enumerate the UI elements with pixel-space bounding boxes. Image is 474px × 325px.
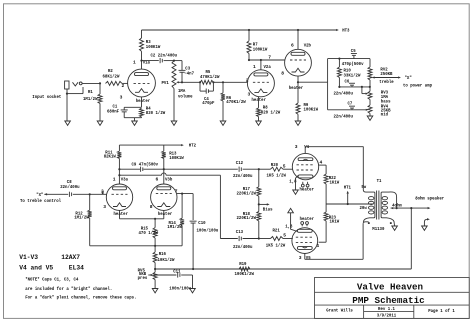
wire V5 plate up to OT — [363, 222, 369, 259]
svg-text:treble: treble — [379, 79, 394, 85]
resistor R10 slope — [337, 59, 341, 87]
label V1a pins — [120, 60, 151, 101]
wire V2a cathode — [258, 97, 260, 108]
svg-text:1M1/2W: 1M1/2W — [74, 214, 89, 220]
svg-text:T1: T1 — [377, 178, 382, 184]
wire X to C8 — [44, 193, 68, 195]
svg-text:heater: heater — [289, 85, 304, 91]
node bias — [258, 203, 260, 205]
capacitor C2 — [142, 58, 175, 63]
node V1a plate junction — [140, 60, 142, 62]
svg-text:68K1/2W: 68K1/2W — [103, 73, 120, 79]
node NFB left — [154, 268, 156, 270]
svg-text:HT1: HT1 — [344, 184, 352, 190]
wire V2b cathode — [297, 76, 299, 103]
svg-text:C10: C10 — [198, 220, 206, 226]
svg-text:Page 1 of 1: Page 1 of 1 — [428, 308, 455, 314]
label RV2 — [379, 66, 394, 85]
svg-text:6: 6 — [291, 43, 294, 49]
potentiometer PV1 volume — [172, 61, 176, 121]
svg-text:82K1W: 82K1W — [104, 154, 116, 160]
label HT1 — [344, 184, 352, 190]
capacitor C4 — [200, 82, 213, 93]
svg-text:100K1W: 100K1W — [253, 46, 268, 52]
wire jack sleeve — [66, 87, 83, 95]
label V3b heater — [158, 211, 173, 217]
transformer core — [377, 191, 379, 220]
wire V3b grid — [177, 193, 193, 195]
svg-text:100K1/2W: 100K1/2W — [235, 271, 255, 277]
svg-text:V3b: V3b — [165, 177, 173, 183]
capacitor C8 — [69, 192, 71, 197]
label C12 — [233, 160, 253, 179]
wire R6 to V2a grid — [223, 78, 249, 84]
label R15 — [139, 226, 159, 236]
label C3 — [184, 65, 194, 76]
node tail mid — [154, 245, 156, 247]
label secondary 0 terminal — [390, 222, 392, 224]
primary bottom lead — [363, 218, 369, 222]
author cell — [326, 307, 353, 313]
svg-text:"X": "X" — [405, 75, 413, 81]
svg-text:470p(500v: 470p(500v — [342, 61, 364, 67]
resistor R11 — [117, 145, 121, 169]
svg-text:V1-V3: V1-V3 — [19, 254, 38, 261]
resistor R6 — [221, 82, 225, 121]
svg-text:22n/400u: 22n/400u — [233, 173, 253, 179]
label V5 pins — [285, 223, 311, 261]
wire tone left rail — [327, 82, 329, 110]
wire V5 cathode — [291, 213, 298, 232]
label X out — [403, 75, 432, 88]
label tube types line 2 — [19, 264, 84, 271]
ground R9 — [295, 121, 301, 125]
ground secondary — [392, 226, 398, 230]
svg-text:volume: volume — [178, 93, 193, 99]
svg-text:220K1/2W: 220K1/2W — [237, 190, 257, 196]
label R20 — [267, 162, 287, 178]
resistor R3 — [140, 30, 144, 61]
wire grid V2b — [249, 54, 285, 60]
svg-text:100K1W: 100K1W — [169, 155, 184, 161]
resistor R5 — [200, 80, 214, 84]
svg-text:V2a: V2a — [264, 64, 272, 70]
resistor R21 grid stopper — [259, 237, 283, 241]
svg-text:1: 1 — [133, 60, 136, 66]
svg-text:C5: C5 — [351, 48, 356, 54]
label C8 — [60, 179, 80, 190]
ground V5 cathode up — [288, 208, 294, 212]
label R1 — [83, 89, 98, 102]
svg-text:8: 8 — [281, 70, 284, 76]
svg-text:4: 4 — [320, 159, 323, 165]
wire cathode ground join — [124, 118, 141, 121]
label 5W tap — [361, 184, 366, 190]
svg-text:33K1/2W: 33K1/2W — [344, 73, 361, 79]
svg-text:R1: R1 — [88, 89, 93, 95]
svg-text:HT2: HT2 — [189, 143, 197, 149]
arrow HT3 — [336, 29, 339, 31]
secondary top lead — [387, 192, 397, 208]
svg-text:C12: C12 — [236, 160, 244, 166]
wire plate down to OT — [363, 147, 369, 192]
title text — [357, 281, 423, 292]
label V3a heater — [114, 211, 129, 217]
triode V3b — [151, 184, 177, 210]
label V1a heater — [136, 98, 151, 104]
ground speaker return — [422, 226, 428, 230]
svg-text:are included for a "bright" ch: are included for a "bright" channel. — [25, 286, 112, 292]
wire V3a plate branch — [118, 169, 120, 184]
wire speaker line — [391, 207, 428, 209]
svg-text:1K5 1/2W: 1K5 1/2W — [267, 172, 287, 178]
label tube types line 1 — [19, 254, 80, 261]
svg-text:5: 5 — [283, 164, 286, 170]
triode V3a — [106, 184, 132, 210]
resistor R12 — [88, 194, 92, 246]
capacitor C11 presence — [153, 272, 192, 288]
label C9 — [132, 162, 159, 168]
wire V4 plate — [305, 147, 363, 154]
wire tone stack top — [328, 58, 370, 60]
svg-text:820 1/2W: 820 1/2W — [261, 110, 281, 116]
label PV1 — [162, 80, 193, 99]
svg-text:470K1/2W: 470K1/2W — [200, 74, 220, 80]
svg-text:3: 3 — [295, 144, 298, 150]
svg-text:5w: 5w — [361, 184, 366, 190]
wire V1a cathode — [141, 97, 143, 107]
svg-text:7: 7 — [268, 54, 271, 60]
svg-text:1M1/2W: 1M1/2W — [83, 96, 98, 102]
label R8 — [261, 105, 281, 116]
potentiometer RV3 bass — [368, 91, 372, 105]
label R18 — [237, 211, 257, 221]
svg-text:to power amp: to power amp — [403, 82, 432, 88]
resistor R16 — [153, 246, 157, 269]
wire V3b plate branch — [163, 169, 165, 184]
wire V4 screen — [319, 164, 327, 166]
triode V2b cathode follower — [285, 49, 312, 76]
wire V4 cathode — [296, 176, 299, 190]
transformer T1 secondary — [381, 192, 387, 218]
node R1 junction — [99, 82, 101, 84]
svg-text:250KB: 250KB — [380, 71, 392, 77]
wire C7 row — [328, 109, 367, 111]
wire R12 to tail — [90, 245, 155, 247]
capacitor C10 — [190, 194, 197, 269]
svg-text:8: 8 — [150, 204, 153, 210]
label R3 — [146, 39, 161, 50]
wire NFB up to speaker — [410, 208, 412, 269]
svg-text:C7: C7 — [348, 101, 353, 107]
svg-text:1MA: 1MA — [178, 88, 186, 94]
arrow X in — [44, 193, 47, 195]
svg-text:mid: mid — [381, 112, 389, 118]
wire HT3 rail — [142, 29, 337, 31]
resistor R8 — [257, 108, 261, 121]
ground R1 — [97, 121, 103, 125]
svg-text:10K1/2W: 10K1/2W — [158, 257, 175, 263]
label V3b pins — [150, 177, 178, 210]
transformer T1 primary — [369, 192, 375, 218]
svg-text:C13: C13 — [236, 229, 244, 235]
label to treble control — [20, 198, 61, 204]
svg-text:22n/400u: 22n/400u — [334, 90, 354, 96]
wire R20 to V4 grid — [283, 164, 293, 170]
label R22 — [329, 175, 340, 185]
svg-text:3: 3 — [120, 95, 123, 101]
wire C13 row — [220, 238, 237, 240]
resistor R2 — [106, 81, 123, 85]
ground V1a cathode — [132, 121, 138, 125]
label V4 pins — [289, 144, 322, 185]
capacitor C6 — [345, 79, 356, 87]
label C5 value — [342, 61, 364, 67]
label R5 — [200, 69, 220, 80]
svg-text:To treble control: To treble control — [20, 198, 61, 204]
wire C13 to R21 — [243, 237, 260, 239]
capacitor C13 — [239, 236, 241, 241]
label 4ohm tap — [392, 202, 402, 208]
label T1 — [377, 178, 382, 184]
wire cathode join — [120, 218, 164, 220]
node V3a plate — [118, 168, 120, 170]
svg-text:2: 2 — [122, 83, 125, 89]
svg-text:100K1W: 100K1W — [304, 106, 319, 112]
svg-text:HT3: HT3 — [342, 28, 350, 34]
capacitor C5 treble — [351, 48, 357, 59]
PV1 wiper — [176, 81, 182, 83]
pentode V4 — [292, 153, 318, 179]
node R7 top — [248, 29, 250, 31]
input jack J1 — [65, 81, 83, 89]
label note line 3 — [25, 294, 136, 300]
wire HT2 rail — [119, 144, 181, 146]
svg-text:470pF: 470pF — [202, 100, 214, 106]
svg-text:V5: V5 — [306, 255, 311, 261]
arrow bias — [259, 203, 270, 205]
label C6 value — [334, 90, 354, 96]
label R16 — [158, 251, 175, 263]
potentiometer RV4 mid — [368, 105, 372, 116]
label C7 value — [334, 114, 354, 120]
svg-text:1: 1 — [113, 177, 116, 183]
svg-text:100K1W: 100K1W — [146, 44, 161, 50]
wire screen node to OT tap — [326, 203, 373, 205]
resistor R13 — [162, 145, 166, 169]
label 20W tap — [360, 205, 368, 211]
subtitle text — [352, 295, 425, 306]
wire jack tip to R1 node — [82, 82, 100, 84]
resistor R14 — [180, 194, 184, 246]
svg-text:220K1/2W: 220K1/2W — [237, 215, 257, 221]
triode V2a — [247, 70, 274, 97]
label V2b pins — [281, 43, 311, 77]
wire NFB run — [155, 268, 411, 270]
label R21 — [266, 227, 286, 248]
svg-text:2: 2 — [102, 190, 105, 196]
page cell — [428, 308, 455, 314]
label R13 — [169, 151, 184, 161]
ground jack — [65, 121, 71, 125]
svg-text:8ohm speaker: 8ohm speaker — [415, 196, 444, 202]
label M1130 — [372, 226, 384, 232]
svg-text:3/9/2011: 3/9/2011 — [377, 312, 397, 318]
wire V2b plate — [297, 29, 299, 49]
wire jack ground — [66, 94, 68, 121]
RV4 wiper — [366, 109, 369, 111]
wire C12 to R20 — [243, 168, 260, 170]
svg-text:Input socket: Input socket — [32, 94, 61, 100]
svg-text:EL34: EL34 — [69, 264, 84, 271]
label C11 — [169, 268, 191, 291]
svg-text:*NOTE* Caps C1, C3, C4: *NOTE* Caps C1, C3, C4 — [25, 276, 78, 282]
label bias — [263, 206, 273, 212]
ground R6 — [220, 121, 226, 125]
label R2 — [103, 68, 120, 80]
label R14 — [167, 220, 182, 230]
svg-text:22n/400u: 22n/400u — [334, 114, 354, 120]
svg-text:3: 3 — [299, 255, 302, 261]
RV3 wiper — [362, 87, 368, 95]
resistor R9 — [296, 103, 300, 121]
V5 heater stubs — [301, 222, 309, 227]
wire V3a cathode — [119, 210, 121, 218]
svg-text:C6: C6 — [345, 79, 350, 85]
arrow 4ohm tap — [391, 207, 394, 209]
svg-text:Rev 1.1: Rev 1.1 — [378, 306, 395, 312]
label HT2 — [189, 143, 197, 149]
svg-text:C9 47n(500v: C9 47n(500v — [132, 162, 159, 168]
label V4 heater — [300, 186, 315, 192]
potentiometer RV5 presence — [153, 269, 157, 289]
date cell — [377, 312, 397, 318]
wire wiper to R5 — [182, 81, 201, 83]
wire C8 to V3a grid — [73, 189, 107, 196]
label C2 — [151, 52, 178, 58]
label RV5 — [138, 267, 148, 281]
label V3a pins — [102, 177, 129, 210]
label V2b heater — [289, 85, 304, 91]
capacitor C12 — [239, 167, 241, 172]
label R19 — [235, 261, 255, 277]
wire R14 to tail — [155, 245, 182, 247]
svg-text:pres: pres — [138, 276, 148, 281]
svg-text:R16: R16 — [159, 251, 167, 257]
svg-text:heater: heater — [300, 186, 315, 192]
label R23 — [329, 214, 340, 224]
resistor R15 tail — [153, 219, 157, 246]
svg-text:~4n7: ~4n7 — [184, 70, 194, 76]
label note line 2 — [25, 286, 112, 292]
node V3b plate — [163, 168, 165, 170]
label RV3 — [381, 90, 391, 105]
label note line 1 — [25, 276, 78, 282]
svg-text:V3a: V3a — [121, 177, 129, 183]
wire V2a plate — [260, 59, 262, 70]
V4 heater stubs — [301, 182, 309, 187]
svg-text:5: 5 — [283, 233, 286, 239]
svg-text:1,8: 1,8 — [285, 223, 293, 229]
ground C11 — [190, 289, 196, 293]
wire V2b cathode to tone stack — [298, 59, 328, 83]
input socket label — [32, 94, 61, 100]
wire cross coupling to C13 — [119, 173, 220, 239]
RV5 wiper — [148, 274, 153, 276]
svg-text:Bias: Bias — [263, 206, 273, 212]
capacitor C9 wire — [119, 167, 163, 172]
arrow speaker hot — [428, 207, 431, 209]
resistor R7 — [247, 30, 251, 60]
resistor R23 screen — [324, 204, 328, 242]
label R4 — [146, 105, 166, 116]
label R6 — [226, 95, 246, 105]
resistor R18 bias feed — [257, 204, 261, 238]
wire R21 to V5 grid — [283, 233, 293, 239]
svg-text:R5: R5 — [206, 69, 211, 75]
svg-text:C2 22n/400u: C2 22n/400u — [151, 52, 178, 58]
svg-text:100n/100u: 100n/100u — [197, 228, 219, 234]
svg-text:Valve Heaven: Valve Heaven — [357, 281, 423, 292]
wire V5 plate — [305, 254, 363, 260]
resistor R19 — [239, 267, 250, 271]
svg-text:1: 1 — [253, 64, 256, 70]
wire to C3 — [174, 60, 182, 62]
svg-text:22n/400u: 22n/400u — [233, 244, 253, 250]
svg-text:heater: heater — [114, 211, 129, 217]
label R10 — [344, 68, 361, 79]
label R12 — [74, 211, 89, 221]
resistor R22 screen — [324, 165, 328, 204]
svg-text:1K5 1/2W: 1K5 1/2W — [266, 243, 286, 249]
ground tone stack — [367, 116, 373, 120]
label V5 heater — [300, 216, 315, 222]
capacitor C1 — [121, 107, 128, 117]
svg-text:470 1/2W: 470 1/2W — [139, 230, 159, 236]
svg-text:20w: 20w — [360, 205, 368, 211]
ground PV1 — [171, 121, 177, 125]
svg-text:1K1W: 1K1W — [330, 180, 340, 186]
rev cell — [378, 306, 395, 312]
svg-text:100n/100u: 100n/100u — [169, 285, 191, 291]
triode V1a — [128, 69, 156, 97]
svg-text:22n/400u: 22n/400u — [60, 184, 80, 190]
svg-text:R21: R21 — [273, 227, 281, 233]
ground R8 — [256, 121, 262, 125]
node R7 bottom — [248, 59, 250, 61]
svg-text:12AX7: 12AX7 — [61, 254, 80, 261]
svg-text:For a "dark" plexi channel, re: For a "dark" plexi channel, remove these… — [25, 294, 136, 300]
svg-text:3: 3 — [248, 92, 251, 98]
svg-text:Grant Wills: Grant Wills — [326, 307, 353, 313]
resistor R1 — [98, 83, 102, 121]
svg-text:"X": "X" — [36, 192, 44, 198]
label X in — [36, 192, 44, 198]
label C13 — [233, 229, 253, 250]
svg-text:1M1/2W: 1M1/2W — [167, 224, 182, 230]
label V2a heater — [252, 97, 267, 103]
svg-text:heater: heater — [136, 98, 151, 104]
svg-text:R19: R19 — [239, 261, 247, 267]
svg-text:V2b: V2b — [304, 43, 312, 49]
RV2 wiper to X — [372, 76, 401, 78]
label C4 — [202, 96, 214, 106]
wire R2 to V1a grid — [122, 83, 128, 89]
svg-text:heater: heater — [158, 211, 173, 217]
resistor R4 — [140, 108, 144, 118]
svg-text:3: 3 — [103, 204, 106, 210]
wire C6 row — [338, 86, 371, 88]
